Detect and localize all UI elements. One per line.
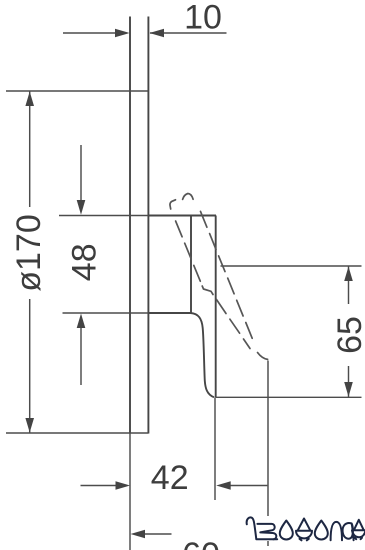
body right edge (215, 216, 217, 398)
body bottom / dim 65 bottom extension (216, 396, 362, 398)
arrow dim10 right (points left) (149, 29, 164, 38)
extension lever-tip down for dim 60 (267, 361, 269, 517)
logo white backing box (242, 517, 364, 542)
svg-text:60: 60 (182, 536, 220, 550)
lever grip left edge dashes (176, 221, 183, 237)
wall plate left edge (129, 17, 131, 434)
extension line 48-bottom (left of plate) (63, 312, 149, 314)
svg-text:10: 10 (184, 0, 222, 37)
extension lever-tip below logo (267, 541, 269, 546)
logo letter o (drop) (280, 521, 293, 540)
dim line o170 lower segment (29, 299, 31, 433)
arrow dim65 down (344, 382, 353, 397)
lever top cap apex dash (183, 194, 194, 200)
arrow o170 down (25, 418, 34, 433)
svg-text:48: 48 (66, 243, 104, 281)
svg-text:ø170: ø170 (10, 214, 48, 292)
body top edge (148, 215, 216, 217)
arrow o170 up (25, 92, 34, 107)
handle base inner vertical (190, 216, 192, 314)
logo letter d (343, 523, 354, 540)
svg-text:42: 42 (151, 459, 189, 497)
logo Bosonda (stylized navy outline letters) (247, 517, 365, 540)
dim 48 lower arrow tail (80, 326, 82, 385)
extension line plate-left down to bottom (129, 434, 131, 550)
arrow dim60 left (points left) (131, 530, 146, 539)
lever right edge dashes (201, 211, 207, 227)
dim 65 line upper segment (348, 266, 350, 304)
svg-text:65: 65 (331, 316, 365, 354)
dim 48 upper arrow tail (80, 145, 82, 202)
logo letter a (boat) (352, 520, 365, 539)
body underside edge (148, 312, 190, 314)
extension line 48-top (left of plate) (59, 215, 148, 217)
dim 60 left arrow tail (143, 533, 172, 535)
arrow dim42 right (points left) (216, 481, 231, 490)
logo letter n (arch) (331, 522, 342, 540)
extension body-right down for dim 42 (214, 397, 216, 500)
extension line o170 bottom (6, 432, 148, 434)
logo letter o (drop) (315, 521, 328, 540)
dim line o170 upper segment (29, 91, 31, 207)
lever top-left corner dash (170, 200, 176, 209)
wall plate right edge (147, 17, 149, 434)
dim 65 line lower segment (348, 366, 350, 397)
dim 10 left arrow line (63, 32, 116, 34)
spout S-curve (191, 313, 215, 397)
lever bottom cap dash (258, 353, 268, 360)
lever shank left edge dashes (216, 299, 226, 313)
arrow dim48 up (below bottom ext) (77, 314, 86, 329)
dim 42 right arrow tail (229, 485, 267, 487)
arrow dim10 left (points right) (115, 29, 130, 38)
dashed lever handle (alternate position, phantom outline) (170, 194, 268, 360)
lever step dash (202, 286, 213, 295)
logo letter s (boat) (296, 519, 312, 541)
dim 65 top extension (221, 265, 362, 267)
dim 42 left arrow tail (81, 485, 118, 487)
dim 10 right arrow line (150, 32, 227, 34)
arrow dim65 up (344, 267, 353, 282)
arrow dim42 left (points right) (116, 481, 131, 490)
extension line o170 top (6, 90, 148, 92)
logo letter B with swan-neck swash (247, 517, 278, 539)
arrow dim48 down (above top ext) (77, 200, 86, 215)
